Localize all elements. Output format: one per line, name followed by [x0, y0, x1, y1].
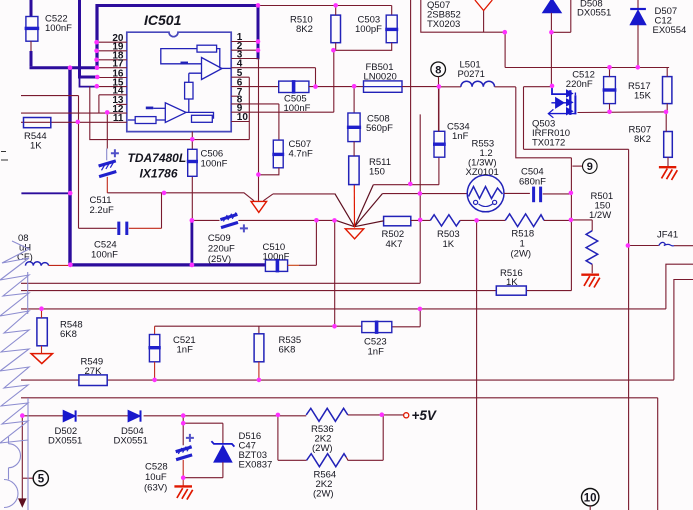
- wire thick bus C522 bottom: [30, 51, 33, 66]
- wire thick bus bottom horizontal y265: [70, 263, 266, 266]
- svg-text:1nF: 1nF: [177, 345, 194, 356]
- wire thick bus vertical x97 (pins 17-20): [95, 4, 98, 67]
- wire end arrow: [19, 499, 26, 507]
- pin 20: [97, 33, 127, 44]
- pin 19: [97, 42, 127, 53]
- wire vertical x420 (Q503 source to pair line): [419, 114, 421, 283]
- wire rail y283.3 (to R502 node): [21, 282, 420, 284]
- resistor R518 (zigzag): [505, 214, 571, 260]
- svg-text:XZ0101: XZ0101: [466, 167, 499, 178]
- capacitor C521: [148, 326, 195, 380]
- node circle 10: [582, 489, 599, 510]
- svg-text:100nF: 100nF: [45, 23, 72, 34]
- pin 8: [231, 95, 279, 141]
- svg-text:150: 150: [369, 167, 385, 178]
- capacitor C510: [263, 220, 317, 272]
- svg-text:1K: 1K: [30, 141, 42, 152]
- svg-text:(25V): (25V): [208, 254, 231, 265]
- resistor R511 lead (red): [353, 185, 355, 228]
- svg-text:100nF: 100nF: [263, 252, 290, 263]
- capacitor C509 (electrolytic): [192, 212, 335, 265]
- wire vertical x335 (C509 row to C523 row): [334, 220, 336, 326]
- svg-text:15K: 15K: [634, 91, 652, 102]
- ground triangle (C507 net): [251, 201, 267, 212]
- diode D507: [630, 0, 686, 67]
- inductor L (left edge coil): [26, 262, 71, 266]
- resistor R549: [79, 357, 107, 386]
- wire rail y379.8: [21, 379, 674, 381]
- svg-text:11: 11: [113, 113, 124, 124]
- capacitor C504: [519, 167, 571, 203]
- capacitor C508: [347, 87, 393, 142]
- resistor R501 (zigzag): [571, 191, 613, 273]
- svg-text:TDA7480L: TDA7480L: [128, 151, 187, 165]
- node +5V: [404, 408, 437, 423]
- wire Q503 gate from D508 node: [524, 86, 552, 88]
- capacitor C506: [187, 132, 228, 221]
- wire net y193.4 left (GND triangle to pin9 column bend): [263, 194, 335, 201]
- jumper JF41: [629, 230, 693, 246]
- capacitor C512: [566, 68, 617, 112]
- diode D502: [48, 410, 82, 446]
- svg-text:(2W): (2W): [511, 249, 532, 260]
- svg-text:680nF: 680nF: [519, 177, 546, 188]
- wire rail y397.8: [21, 398, 658, 510]
- svg-text:27K: 27K: [85, 366, 103, 377]
- svg-text:1/2W: 1/2W: [589, 210, 611, 221]
- svg-text:4K7: 4K7: [386, 239, 403, 250]
- pin 6: [231, 77, 279, 88]
- wire pin9 riser x333.8: [333, 50, 335, 112]
- svg-text:EX0837: EX0837: [239, 460, 273, 471]
- pin 18: [97, 51, 127, 62]
- svg-text:4.7nF: 4.7nF: [289, 149, 313, 160]
- svg-text:TX0203: TX0203: [427, 19, 460, 30]
- capacitor C534: [433, 87, 470, 158]
- svg-text:C528: C528: [145, 462, 168, 473]
- resistor R536 (zigzag): [306, 408, 403, 454]
- wire diode rail y415.8: [22, 415, 306, 417]
- pin 15: [97, 77, 127, 88]
- svg-text:IC501: IC501: [144, 12, 182, 28]
- capacitor C507: [259, 139, 313, 175]
- svg-text:100nF: 100nF: [91, 250, 118, 261]
- pin 13: [112, 95, 126, 106]
- node circle 8: [431, 62, 446, 131]
- capacitor C522: [25, 14, 73, 53]
- node circle 9: [572, 159, 597, 174]
- svg-text:220uF: 220uF: [208, 244, 235, 255]
- pin 7: [231, 87, 243, 98]
- wire thick bus vertical x70: [68, 68, 71, 265]
- svg-text:C509: C509: [208, 233, 231, 244]
- wire thick vertical x192 (C506 bottom to C509 row): [190, 220, 193, 265]
- wire source rail y112: [578, 111, 667, 114]
- wire thick supply bus top (C522 top lead): [30, 0, 33, 17]
- svg-text:10: 10: [584, 492, 597, 504]
- wire Q507 collector to y67.5 rail: [505, 32, 669, 67]
- resistor R507: [629, 112, 673, 167]
- wire rail y290.6 (R516 line): [21, 290, 571, 292]
- svg-text:8K2: 8K2: [634, 134, 651, 145]
- node circle 5: [23, 471, 49, 486]
- svg-text:9: 9: [587, 161, 593, 173]
- wire rail y309: [21, 308, 666, 310]
- wire net y193.4 right (star to R553): [382, 193, 467, 195]
- wire top net y5.5 to C503: [259, 6, 391, 16]
- ground triangle (R548): [31, 354, 52, 364]
- wire L501 output loop y157.8: [516, 87, 572, 158]
- resistor R516: [496, 268, 526, 295]
- capacitor C511 (electrolytic): [90, 113, 119, 216]
- svg-text:6K8: 6K8: [60, 329, 77, 340]
- diode D504: [114, 410, 148, 446]
- svg-text:JF41: JF41: [657, 230, 678, 241]
- svg-text:EX0554: EX0554: [653, 25, 687, 36]
- capacitor C505: [279, 80, 364, 114]
- svg-text:2.2uF: 2.2uF: [90, 205, 114, 216]
- svg-text:1nF: 1nF: [452, 131, 469, 142]
- svg-text:6K8: 6K8: [279, 345, 296, 356]
- pin 17: [97, 59, 127, 70]
- wire navy stub to bus x70 y193: [21, 192, 70, 194]
- pin 5: [231, 68, 249, 140]
- wire net y184.5 (star to C534): [373, 157, 439, 185]
- wire vertical x571.4 (C504/R518 node down to R516 line): [570, 158, 572, 291]
- svg-text:10: 10: [237, 112, 249, 123]
- svg-text:1K: 1K: [443, 239, 455, 250]
- svg-text:100nF: 100nF: [201, 159, 228, 170]
- diode D508: [543, 0, 612, 86]
- label left coil (cut off): [17, 233, 33, 263]
- resistor R548: [37, 309, 83, 354]
- svg-text:DX0551: DX0551: [577, 8, 611, 19]
- svg-text:IX1786: IX1786: [140, 167, 178, 181]
- svg-text:8: 8: [435, 64, 441, 76]
- wire navy branch to pin15: [80, 77, 97, 87]
- thermistor R553 XZ0101: [467, 175, 504, 212]
- wire vertical x410.6 from top: [410, 0, 412, 184]
- resistor R510: [290, 6, 341, 51]
- wire thick bus horizontal y68: [30, 66, 99, 69]
- wire pin14 drop: [98, 95, 100, 113]
- resistor R544: [24, 118, 51, 152]
- R553 labels: [466, 139, 499, 178]
- svg-text:TX0172: TX0172: [532, 138, 565, 149]
- svg-text:1nF: 1nF: [368, 347, 385, 358]
- svg-text:220nF: 220nF: [566, 79, 593, 90]
- svg-text:10uF: 10uF: [145, 472, 167, 483]
- inductor L501: [439, 60, 516, 87]
- pin 16: [97, 68, 127, 79]
- svg-text:DX0551: DX0551: [48, 436, 82, 447]
- svg-text:(2W): (2W): [313, 489, 334, 500]
- svg-text:1K: 1K: [506, 277, 518, 288]
- ground (C528, slash style): [174, 486, 192, 499]
- resistor R502: [382, 216, 431, 250]
- transistor Q2SB852 Q507 box: [421, 0, 505, 32]
- capacitor C503: [333, 15, 398, 51]
- wire thick bus vertical x79.5 (pin16): [78, 0, 98, 77]
- pin 9: [231, 103, 334, 114]
- capacitor C528 (electrolytic): [144, 416, 194, 494]
- svg-text:P0271: P0271: [458, 69, 485, 80]
- IC op-amp U IC501 outline: [127, 32, 231, 131]
- wire corner net y264/x665.9: [666, 264, 693, 309]
- ground (R501, slash style): [581, 275, 600, 288]
- wire thick bus vertical x258 (pins 1-3): [257, 4, 260, 59]
- wire rail y326 (C521/R535/C523 row): [155, 309, 421, 327]
- svg-text:+5V: +5V: [412, 408, 437, 423]
- IC501 internal amplifier circuit: [128, 45, 231, 123]
- wire left net y95.6: [21, 96, 79, 229]
- svg-text:5: 5: [38, 473, 45, 485]
- resistor R535: [254, 326, 301, 380]
- resistor R503 (zigzag): [430, 215, 505, 250]
- pin 3: [231, 49, 258, 60]
- pin 4: [231, 58, 315, 86]
- svg-text:(63V): (63V): [144, 483, 167, 494]
- wire corner net y279.5/x673.9: [674, 280, 693, 380]
- svg-text:100pF: 100pF: [355, 24, 382, 35]
- svg-text:560pF: 560pF: [366, 123, 393, 134]
- left edge tick marks: [1, 152, 8, 161]
- pin 10: [231, 112, 249, 123]
- pin 14: [99, 86, 127, 97]
- pin 11: [21, 113, 127, 124]
- torn scan edge (left): [0, 241, 29, 510]
- wire C511 bottom net y193: [107, 193, 254, 201]
- resistor R511: [349, 142, 391, 185]
- resistor R564 (zigzag): [278, 415, 383, 500]
- svg-text:100nF: 100nF: [284, 103, 311, 114]
- pin 2: [231, 41, 258, 52]
- transistor Q507 emitter arrow (red): [475, 0, 492, 11]
- svg-text:(2W): (2W): [312, 443, 333, 454]
- wire R553 to C504: [504, 192, 530, 194]
- svg-text:8K2: 8K2: [296, 24, 313, 35]
- capacitor C523: [362, 321, 392, 358]
- zener diode D516: [183, 423, 272, 478]
- svg-text:LN0020: LN0020: [364, 72, 397, 83]
- pin 1: [231, 32, 258, 43]
- ground (R507, slash style): [659, 167, 677, 180]
- wire vertical x628.6 to bottom: [628, 149, 630, 510]
- wire vertical x258.5 (pin3 bus to GND triangle): [258, 59, 260, 201]
- svg-text:DX0551: DX0551: [114, 436, 148, 447]
- mosfet Q503 IRFR010: [548, 86, 576, 118]
- ground triangle (star): [345, 229, 363, 239]
- resistor R517: [628, 68, 672, 112]
- ferrite bead FB501: [364, 62, 439, 92]
- capacitor C524: [79, 193, 162, 261]
- pin 12: [21, 104, 127, 115]
- Q503 labels: [532, 119, 570, 149]
- wire gate-net riser x523.5 down: [524, 87, 629, 150]
- wire pin13/pin5/pin10 net y139.6: [90, 87, 250, 140]
- wire vertical x476.6 (R518 node to bottom): [476, 220, 478, 510]
- wire thick bus top horizontal y5.5: [96, 4, 260, 7]
- wire bottom left drop x22.3: [21, 416, 23, 499]
- ground star node (audio GND): [335, 185, 384, 227]
